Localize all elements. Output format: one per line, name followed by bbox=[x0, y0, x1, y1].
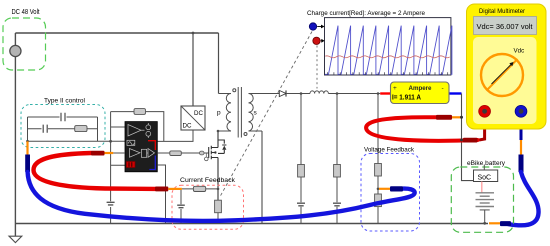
resistor R8 bbox=[375, 194, 382, 207]
source DC 48 Volt bbox=[10, 45, 21, 56]
svg-text:Current Feedback: Current Feedback bbox=[180, 177, 236, 184]
wire: top rail bbox=[15, 32, 218, 34]
svg-text:DC: DC bbox=[183, 123, 192, 130]
wire: feedback loop bbox=[111, 111, 134, 113]
wire: left IC column bbox=[110, 112, 112, 224]
measurement dashed line A bbox=[220, 32, 313, 198]
ground bbox=[9, 236, 22, 242]
dial bbox=[481, 54, 523, 96]
wire: bottom ground rail bbox=[15, 223, 488, 225]
sense resistor R9 bbox=[215, 200, 222, 213]
zener small bbox=[205, 157, 209, 161]
PWM controller U1 bbox=[125, 122, 157, 172]
wire: IC ground bbox=[157, 165, 165, 224]
svg-text:Ampere: Ampere bbox=[409, 85, 432, 92]
scope probe blue dot bbox=[309, 23, 316, 30]
svg-text:eBike battery: eBike battery bbox=[467, 160, 506, 167]
MOSFET Q1 bbox=[209, 131, 225, 200]
resistor R3 bbox=[134, 109, 146, 115]
scope waveform red bbox=[325, 56, 450, 58]
wire: secondary bottom to rail bbox=[261, 131, 263, 224]
scope ticks bbox=[328, 72, 448, 75]
node: voltage divider branch bbox=[377, 94, 379, 224]
probe wire: multimeter red bbox=[479, 117, 485, 141]
SoC box bbox=[474, 170, 498, 182]
resistor R10 bbox=[193, 186, 205, 191]
svg-text:Vdc= 36.007 volt: Vdc= 36.007 volt bbox=[477, 24, 533, 31]
resistor R2 bbox=[75, 126, 87, 132]
wire: compensator bbox=[28, 113, 126, 142]
svg-text:Voltage Feedback: Voltage Feedback bbox=[364, 147, 415, 154]
wire: secondary top rail bbox=[262, 93, 279, 95]
scope waveform blue bbox=[325, 26, 452, 75]
probe wire: blue left (to Type II node) bbox=[26, 141, 28, 154]
svg-text:Digital Multimeter: Digital Multimeter bbox=[479, 8, 526, 15]
capacitor C7 bbox=[180, 189, 182, 224]
probe wire: multimeter blue bbox=[520, 117, 523, 141]
svg-text:DC 48 Volt: DC 48 Volt bbox=[12, 9, 40, 16]
Current Feedback network bbox=[182, 188, 218, 190]
wire: load vertical bbox=[462, 94, 474, 181]
terminals bbox=[479, 105, 491, 117]
svg-text:Charge current[Red]: Average =: Charge current[Red]: Average = 2 Ampere bbox=[307, 10, 425, 17]
red sense element inside U1 bbox=[126, 162, 135, 168]
svg-text:I= 1.911 A: I= 1.911 A bbox=[392, 95, 421, 102]
diode D1 bbox=[279, 90, 286, 96]
DC/DC converter U2 bbox=[181, 106, 205, 130]
capacitor C6 bbox=[333, 203, 341, 206]
scope probe red dot bbox=[313, 37, 320, 44]
measurement dashed line B bbox=[316, 46, 318, 89]
transformer T1 bbox=[219, 87, 263, 138]
capacitor C5 bbox=[297, 203, 305, 206]
svg-text:Type II control: Type II control bbox=[44, 97, 86, 104]
svg-text:+: + bbox=[393, 85, 397, 92]
wire: primary vertical bbox=[218, 33, 220, 94]
wire: DC/DC input bbox=[192, 33, 194, 106]
svg-text:Vdc: Vdc bbox=[514, 48, 525, 55]
wire: IC stubs bbox=[111, 127, 125, 165]
Digital Multimeter bbox=[467, 4, 547, 129]
wire: DC/DC return bbox=[157, 130, 193, 141]
battery cells bbox=[481, 182, 483, 193]
svg-text:-: - bbox=[442, 85, 444, 92]
Ampere meter bbox=[380, 92, 390, 94]
resistor R7 bbox=[375, 164, 382, 177]
inductor L1 bbox=[310, 91, 328, 94]
resistor R5 bbox=[298, 165, 305, 178]
svg-text:p: p bbox=[217, 110, 221, 117]
resistor R6 bbox=[334, 165, 341, 178]
wire: left DC rail bbox=[14, 33, 16, 236]
resistor R4 bbox=[170, 151, 182, 156]
scope window bbox=[325, 18, 451, 75]
probe wire: red left loop bbox=[34, 153, 156, 189]
wire: gate drive bbox=[157, 152, 208, 154]
ferrite bead bbox=[200, 151, 205, 155]
svg-text:DC: DC bbox=[194, 110, 203, 117]
node: cap branch 1 bbox=[300, 94, 302, 224]
svg-text:SoC: SoC bbox=[478, 174, 492, 181]
node: cap branch 2 bbox=[336, 94, 338, 224]
capacitor C4 bbox=[107, 202, 115, 205]
